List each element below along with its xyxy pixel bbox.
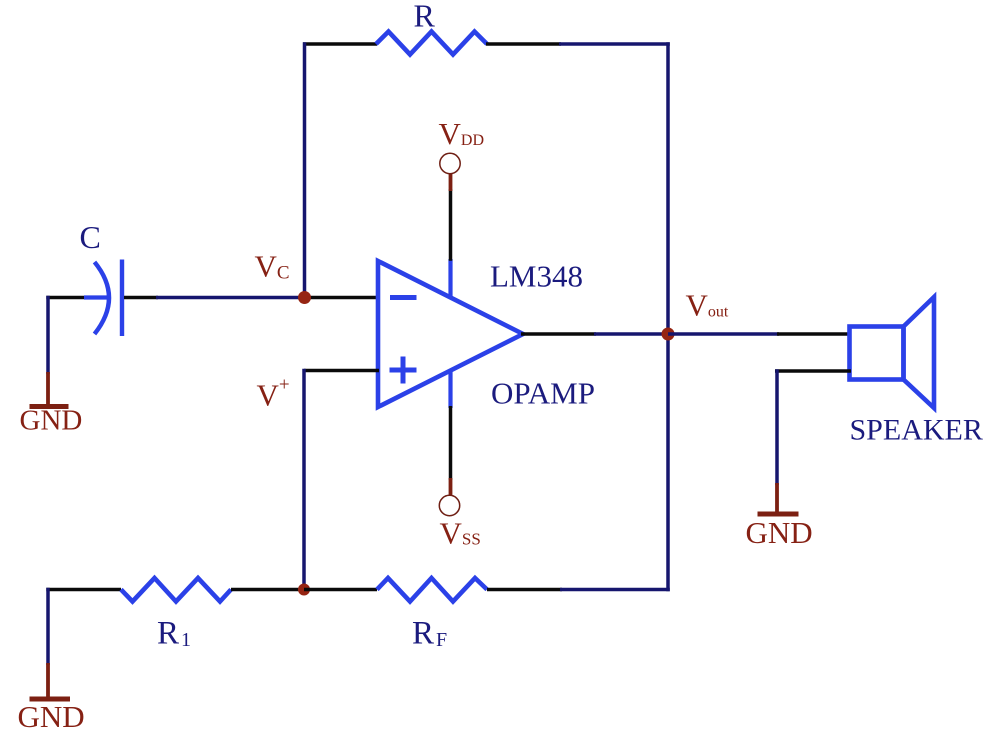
svg-text:SPEAKER: SPEAKER <box>850 414 983 447</box>
speaker LS1 <box>850 297 935 408</box>
node feedback <box>298 584 310 596</box>
wire speaker return black horizontal <box>775 369 851 373</box>
svg-text:GND: GND <box>746 515 813 550</box>
terminal VSS stub <box>449 478 453 496</box>
wire speaker return navy vertical <box>775 369 779 485</box>
resistor RF <box>377 578 487 602</box>
svg-text:LM348: LM348 <box>490 259 583 294</box>
wire black node to RF <box>304 588 377 592</box>
ground (input) <box>30 372 69 407</box>
op-amp VDD pin stub <box>448 259 452 298</box>
wire black right of capacitor <box>124 296 158 300</box>
svg-text:VSS: VSS <box>440 516 481 551</box>
wire output navy to node <box>594 332 670 336</box>
node VOUT <box>662 328 675 341</box>
terminal VSS <box>439 495 459 515</box>
wire black R1 to node <box>231 588 305 592</box>
wire output black from op-amp <box>521 332 596 336</box>
wire output black to speaker <box>777 332 851 336</box>
wire navy to VC node <box>156 296 301 300</box>
op-amp U1 <box>378 261 523 407</box>
svg-text:VC: VC <box>255 249 290 284</box>
svg-text:GND: GND <box>20 405 83 437</box>
wire black VC node to op-amp <box>304 296 379 300</box>
wire input black segment from ground corner <box>46 296 86 300</box>
svg-text:R: R <box>414 0 436 34</box>
wire left ground navy vertical <box>46 296 50 374</box>
wire VDD black vertical <box>449 189 453 261</box>
resistor R1 <box>121 578 231 602</box>
wire navy to right corner <box>560 588 670 592</box>
op-amp minus input symbol <box>390 295 417 300</box>
terminal VDD <box>440 153 460 173</box>
ground (speaker) <box>758 483 799 514</box>
wire bottom-left ground navy vertical <box>46 588 50 665</box>
wire plus-input navy vertical <box>302 369 306 591</box>
wire top navy segment <box>559 42 670 46</box>
wire VSS black vertical <box>449 406 453 480</box>
wire right vertical navy <box>666 42 670 591</box>
wire bottom-left black segment <box>46 588 121 592</box>
op-amp VSS pin stub <box>448 370 452 408</box>
svg-text:RF: RF <box>412 616 447 652</box>
node VC <box>298 291 311 304</box>
svg-text:OPAMP: OPAMP <box>491 376 595 411</box>
ground (bottom-left) <box>30 663 71 699</box>
wire output navy right of node <box>668 332 779 336</box>
wire left vertical navy <box>303 42 307 297</box>
wire plus-input black horizontal <box>304 369 379 373</box>
capacitor C <box>84 260 122 337</box>
op-amp plus input symbol <box>390 357 417 384</box>
wire top-left black segment <box>303 42 377 46</box>
svg-text:R1: R1 <box>157 616 191 652</box>
svg-text:Vout: Vout <box>686 288 729 323</box>
resistor R <box>376 32 487 55</box>
terminal VDD stub <box>449 173 453 191</box>
svg-text:GND: GND <box>18 699 85 733</box>
svg-text:VDD: VDD <box>439 116 485 151</box>
svg-text:C: C <box>80 219 101 255</box>
wire black right of RF <box>487 588 562 592</box>
svg-text:V+: V+ <box>257 375 290 413</box>
wire top black segment right of R <box>486 42 561 46</box>
